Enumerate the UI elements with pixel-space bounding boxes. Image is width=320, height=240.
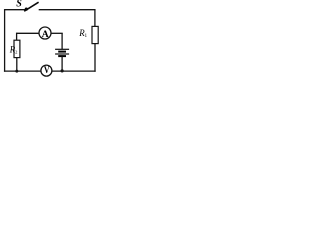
wire right edge lower	[94, 44, 96, 72]
switch S blade	[24, 2, 38, 11]
wire battery bottom lead	[61, 56, 63, 71]
label R1	[78, 27, 85, 37]
resistor R1 box	[92, 26, 98, 43]
wire left edge	[4, 9, 6, 72]
junction node left	[15, 70, 18, 73]
svg-text:A: A	[42, 29, 49, 40]
label R2	[9, 44, 16, 54]
wire top-left segment	[5, 9, 27, 11]
wire battery top lead	[61, 33, 63, 49]
resistor R2 box	[14, 40, 20, 57]
wire ammeter to battery top	[52, 32, 63, 34]
wire R2 bottom lead	[16, 58, 18, 72]
battery cell plate long +	[55, 48, 69, 50]
battery cell plate short -	[58, 55, 66, 57]
wire bottom	[4, 70, 96, 72]
svg-text:V: V	[44, 65, 51, 76]
svg-text:1: 1	[85, 33, 88, 39]
battery cell plate short -	[58, 51, 66, 53]
wire inner left vertical	[16, 33, 18, 41]
switch S pivot dot	[25, 8, 28, 11]
svg-text:S: S	[16, 0, 22, 10]
junction node right	[61, 69, 64, 72]
wire right edge upper	[94, 10, 96, 27]
battery cell plate long +	[55, 53, 69, 55]
wire top-right segment	[39, 9, 96, 11]
wire inner top horizontal	[17, 32, 40, 34]
voltmeter V1	[41, 65, 52, 76]
ammeter A1	[39, 27, 51, 39]
